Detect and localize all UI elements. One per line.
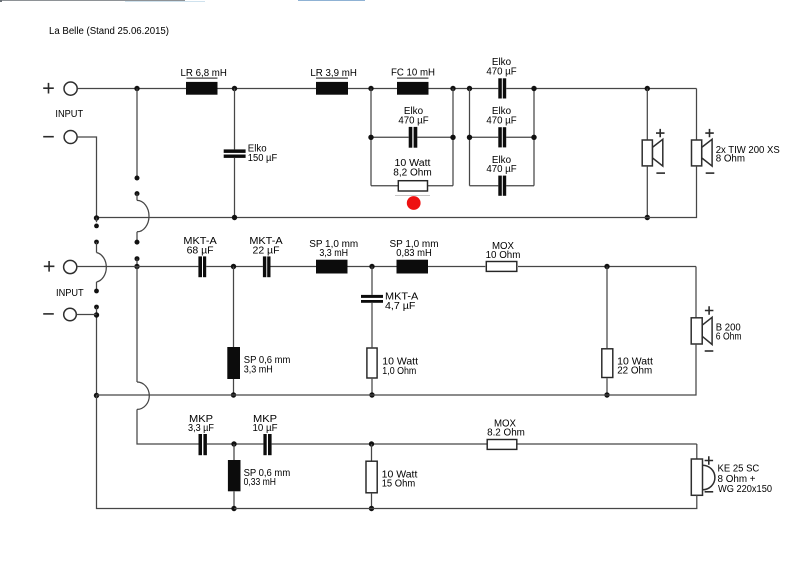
svg-text:FC 10 mH: FC 10 mH [391,68,435,79]
node plus feed dot a [135,176,140,181]
svg-text:15 Ohm: 15 Ohm [382,479,416,490]
wire RC block left vertical [370,89,372,186]
label Elko 470 uF (RC block) [398,106,428,127]
wire input2- to minus feed [76,314,96,316]
label + (LS3) [705,306,714,314]
label SP 1,0 mm 3,3 mH [309,239,358,259]
junction node I [604,264,609,269]
inductor FC 10 mH [397,82,429,95]
label 2x TIW 200 XS 8 Ohm [716,145,780,165]
junction RC mid right [450,135,455,140]
svg-text:KE 25 SC: KE 25 SC [718,463,760,474]
wire minus feed upper segment [96,218,98,223]
label 10 Watt 22 Ohm [617,356,653,376]
wire speaker1 to bottom rail [646,166,648,218]
wire shunt L7 drop [233,444,235,460]
wire L7 to rail3 bottom [233,491,235,508]
wire rail right corner down to speaker2 [696,89,698,141]
label 10 Watt 8,2 Ohm [393,158,432,178]
wire L5 to R3 [428,266,485,268]
wire rail3 corner down to KE25 [696,444,698,459]
inductor LR 6,8 mH [186,82,218,95]
ghost line under R1 [395,195,430,197]
resistor R3 MOX 10 Ohm [486,262,517,272]
wire minus feed stub to hop [96,242,98,253]
speaker LS2 TIW 200 XS [692,139,713,166]
wire plus feed to section3 rail [137,409,199,444]
label - (LS1) [656,172,665,174]
wire RC middle branch [371,136,453,138]
svg-text:INPUT: INPUT [56,288,84,299]
wire C10 to R6 [272,443,487,445]
svg-text:LR 6,8 mH: LR 6,8 mH [181,68,227,79]
speaker LS4 KE 25 SC dome [703,465,715,490]
wire C8 to R2 [371,303,373,348]
svg-text:LR 3,9 mH: LR 3,9 mH [310,68,357,79]
label - (LS2) [706,172,715,174]
svg-text:La Belle (Stand 25.06.2015): La Belle (Stand 25.06.2015) [49,26,169,37]
svg-text:1,0 Ohm: 1,0 Ohm [382,366,416,377]
label MKP 3,3 uF [188,414,214,434]
wire hop minus feed over rail2 [97,253,107,283]
wire plus feed between rail2 and hop [136,267,138,383]
svg-text:8,2 Ohm: 8,2 Ohm [393,167,432,178]
svg-text:470 µF: 470 µF [486,116,516,127]
wire L2 to L3 [348,88,397,90]
wire B200 to rail2 bottom [97,344,697,395]
junction node B [232,86,237,91]
capacitor C7 MKT-A 22 uF [263,256,271,277]
resistor R4 10 Watt 22 Ohm [602,349,613,378]
wire minus feed to rail2 bottom [96,307,98,395]
label MOX 10 Ohm [486,241,521,261]
top edge crop artifact [0,0,365,2]
wire shunt R4 drop [606,267,608,349]
svg-text:68 µF: 68 µF [187,245,214,256]
capacitor C9 MKP 3,3 uF [199,434,207,455]
wire plus feed below hop [136,232,138,242]
label B 200 6 Ohm [716,322,742,342]
node minus feed dot d [94,305,99,310]
wire R5 to rail3 bottom [371,493,373,509]
inductor L7 SP 0,6 mm 0,33 mH [228,460,241,491]
svg-text:470 µF: 470 µF [486,164,516,175]
inductor LR 3,9 mH [316,82,348,95]
label - (LS3) [705,350,714,352]
resistor R2 10 Watt 1,0 Ohm [367,348,377,378]
junction RC mid left [368,135,373,140]
svg-text:0,83 mH: 0,83 mH [396,248,432,259]
wire input- over to drop [77,137,96,218]
capacitor C6 MKT-A 68 uF [198,256,206,277]
wire RC block right vertical [452,89,454,186]
junction node J [231,441,236,446]
label MKP 10 uF [253,414,278,434]
terminal - (section 2) [43,308,76,321]
capacitor C3 Elko 470 uF (bank top, in rail) [498,78,506,98]
label MKT-A 22 uF [249,236,283,256]
label + (LS2) [705,129,714,137]
wire speaker2 to bottom rail [97,166,697,218]
wire hop plus feed over rail2 bottom [137,382,149,409]
svg-text:8 Ohm: 8 Ohm [716,154,745,165]
wire C9 to C10 [207,443,264,445]
node plus feed dot d [135,256,140,261]
junction node H [369,264,374,269]
wire shunt C8 drop [371,267,373,295]
wire bank left vertical [469,89,471,186]
label MKT-A 68 uF [183,236,217,256]
label SP 0,6 mm 0,33 mH [244,468,291,488]
wire C1 to bottom rail [234,158,236,218]
junction R2 bottom [369,392,374,397]
wire minus feed below hop [96,282,98,291]
capacitor C5 Elko 470 uF (bank bottom) [498,176,506,196]
svg-text:4,7 µF: 4,7 µF [385,301,415,312]
label + (LS4) [705,456,714,464]
svg-text:470 µF: 470 µF [398,115,428,126]
capacitor C4 Elko 470 uF (bank middle) [498,127,506,147]
junction R5 bottom [369,506,374,511]
wire L1 to L2 [218,88,317,90]
wire plus feed stub to rail2 [136,259,138,267]
svg-text:150 µF: 150 µF [248,153,277,164]
wire L6 to rail2 bottom [233,379,235,395]
inductor L4 SP 1,0 mm 3,3 mH [316,260,348,274]
label SP 0,6 mm 3,3 mH [244,355,291,375]
junction speaker1 bottom [645,215,650,220]
junction L7 bottom [231,506,236,511]
label 10 Watt 15 Ohm [382,469,418,489]
svg-text:6 Ohm: 6 Ohm [716,332,742,343]
svg-text:470 µF: 470 µF [486,67,516,78]
terminal + (section 1) [43,82,77,95]
speaker LS4 KE 25 SC body [691,459,702,495]
svg-text:WG 220x150: WG 220x150 [718,484,772,495]
svg-text:3,3 mH: 3,3 mH [319,248,348,259]
wire R2 to rail2 bottom [371,379,373,395]
wire C6 to C7 [206,266,263,268]
junction plus feed at rail2 [134,264,139,269]
label MOX 8.2 Ohm [487,419,525,439]
wire input2+ to C6 [77,266,199,268]
svg-text:3,3 mH: 3,3 mH [244,364,273,375]
label Elko 150 uF [248,143,277,164]
node plus feed dot c [135,240,140,245]
capacitor C8 MKT-A 4,7 uF [361,295,383,303]
junction rail1 bottom at C1 [232,215,237,220]
svg-text:8.2 Ohm: 8.2 Ohm [487,427,525,438]
wire KE25 to rail3 bottom [234,495,697,508]
wire bank right vertical [533,89,535,186]
junction node C [368,86,373,91]
wire shunt L6 drop [233,267,235,348]
label + (LS1) [656,129,665,137]
speaker LS3 B 200 [691,317,712,344]
resistor R5 10 Watt 15 Ohm [366,461,377,493]
wire R6 to KE25 [518,443,697,445]
wire input+ to L1 [77,88,186,90]
wire R3 to B200 [518,266,696,268]
junction bank mid right [531,135,536,140]
junction node E [467,86,472,91]
label SP 1,0 mm 0,83 mH [390,239,439,259]
inductor L5 SP 1,0 mm 0,83 mH [397,260,429,274]
svg-text:10 Ohm: 10 Ohm [486,250,521,261]
wire C7 to L4 [271,266,317,268]
junction minus feed at rail2 bottom [94,393,99,398]
junction bank right top [531,86,536,91]
wire R4 to rail2 bottom [606,378,608,395]
wire node B down to C1 [234,89,236,150]
svg-text:10 µF: 10 µF [253,423,278,434]
capacitor C2 Elko 470 uF (RC block) [409,127,418,148]
label 10 Watt 1,0 Ohm [382,357,418,377]
wire L4 to L5 [348,266,397,268]
wire shunt R5 drop [371,444,373,461]
junction node K [369,441,374,446]
red marker dot [407,196,421,210]
inductor FC 10 mH core line [397,77,429,79]
junction bank mid left [467,135,472,140]
svg-text:0,33 mH: 0,33 mH [244,477,276,488]
terminal - (section 1) [43,131,77,144]
wire bank middle branch [470,136,535,138]
wire minus feed to section3 [97,395,235,509]
speaker LS1 TIW 200 XS [642,139,663,166]
wire plus feed stub to hop [136,194,138,201]
wire bank top right segment [506,88,696,90]
capacitor Elko 150 uF [224,149,246,158]
wire RC bottom branch [371,185,453,187]
junction node A [134,86,139,91]
label KE 25 SC 8 Ohm + WG 220x150 [718,463,773,495]
label MKT-A 4,7 uF [385,292,419,312]
wire rail2 corner down to B200 [695,267,697,318]
wire hop plus feed over rail1 bottom [137,200,149,231]
inductor LR 6,8 mH core line [187,77,218,79]
inductor LR 3,9 mH core line [316,77,348,79]
node minus feed dot b [94,240,99,245]
wire L3 to bank [429,88,499,90]
svg-text:3,3 µF: 3,3 µF [188,423,214,434]
junction L6 bottom [231,392,236,397]
label Elko 470 uF (bank middle) [486,106,516,126]
svg-text:22 µF: 22 µF [253,245,280,256]
node minus feed dot c [94,289,99,294]
resistor R1 10 Watt 8,2 Ohm [398,181,427,191]
junction node D [450,86,455,91]
wire bank bottom branch [470,185,535,187]
inductor L6 SP 0,6 mm 3,3 mH [227,347,240,379]
node minus feed dot a [94,224,99,229]
junction node G [231,264,236,269]
resistor R6 MOX 8,2 Ohm [487,440,517,450]
junction R4 bottom [604,392,609,397]
node plus feed dot b [135,191,140,196]
junction node F (speaker 1 top) [645,86,650,91]
capacitor C10 MKP 10 uF [263,434,271,455]
svg-text:INPUT: INPUT [55,109,83,120]
wire speaker1 drop [646,89,648,141]
label Elko 470 uF (bank bottom) [486,155,516,175]
wire plus feed upper segment [136,89,138,179]
label Elko 470 uF (bank top) [486,57,516,77]
terminal + (section 2) [44,260,77,273]
svg-text:22 Ohm: 22 Ohm [617,366,652,377]
junction minus rail1 [94,215,99,220]
junction minus feed at input2 [94,312,99,317]
label - (LS4) [705,491,714,493]
